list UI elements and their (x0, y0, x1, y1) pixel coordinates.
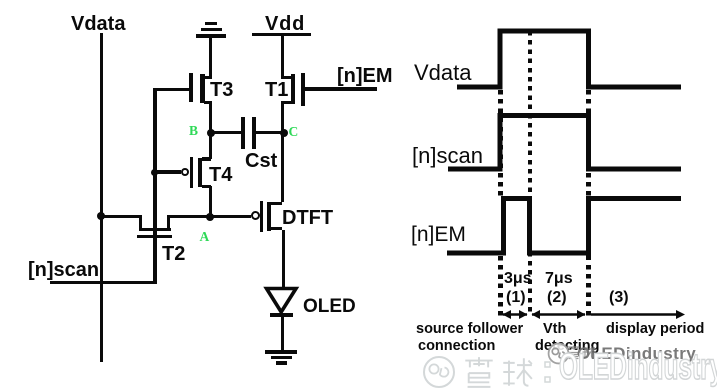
wire node B to Cst (212, 131, 241, 135)
wire T4 gate lead (155, 170, 181, 174)
wire ground to T3 drain (209, 37, 212, 77)
watermark small grey logo (547, 342, 570, 365)
Vdd label (265, 14, 305, 34)
capacitor Cst (241, 117, 245, 149)
junction T4 gate (151, 169, 158, 176)
watermark big text (559, 348, 717, 385)
label Vth detecting (543, 322, 566, 337)
transistor T3 (189, 73, 193, 102)
ground (top, inverted) (205, 22, 217, 25)
wire scan gate line vertical (153, 88, 157, 283)
junction Vdata node (97, 212, 105, 220)
watermark big colon (541, 360, 555, 386)
[n]scan label (28, 260, 99, 280)
watermark small grey qiu glyph (582, 345, 595, 359)
node A (206, 213, 214, 221)
label 7us (545, 271, 573, 287)
wire [n]scan (50, 281, 157, 285)
wire node B to T4 drain (209, 132, 212, 159)
wire T4 source to node A (209, 186, 212, 216)
[n]scan timing label (412, 145, 483, 167)
label source follower connection (416, 322, 523, 337)
[n]EM timing label (411, 224, 466, 245)
wire Vdd to T1 drain (281, 35, 284, 77)
transistor T4 (181, 168, 190, 177)
label (1) (506, 290, 526, 306)
label (2) (547, 290, 567, 306)
watermark small grey xue glyph (567, 345, 580, 359)
ground (bottom) (265, 350, 297, 354)
wire T1 source / node C / DTFT drain vertical (281, 103, 284, 202)
transistor T2 (139, 215, 142, 229)
[n]EM label (337, 66, 393, 86)
dotted line t2 (586, 90, 591, 316)
wire OLED cathode to ground (281, 317, 284, 350)
wire T1 gate to [n]EM (304, 87, 377, 91)
watermark big qiu glyph (501, 356, 533, 388)
transistor DTFT (251, 211, 260, 220)
watermark big logo (422, 355, 456, 388)
wire node A left (100, 215, 140, 219)
wire T3 gate lead (155, 88, 189, 91)
dotted line t1 (528, 31, 533, 316)
Vdd rail (252, 33, 311, 37)
label 3us (504, 271, 532, 287)
wire Vdata vertical (100, 33, 103, 362)
watermark big xue glyph (463, 356, 495, 388)
label (3) (609, 290, 629, 306)
Vdata timing label (414, 62, 472, 84)
wire T3 source to node B (209, 101, 212, 133)
transistor T1 (281, 76, 292, 79)
node C (280, 129, 288, 137)
label display period (606, 322, 704, 337)
dotted line t0 (498, 90, 503, 196)
wire node A right (167, 215, 251, 219)
wire Cst to node C (256, 131, 284, 135)
wire DTFT source to OLED (282, 230, 285, 288)
node B (207, 129, 215, 137)
watermark small grey text (577, 345, 696, 362)
Vdata label (71, 14, 125, 34)
